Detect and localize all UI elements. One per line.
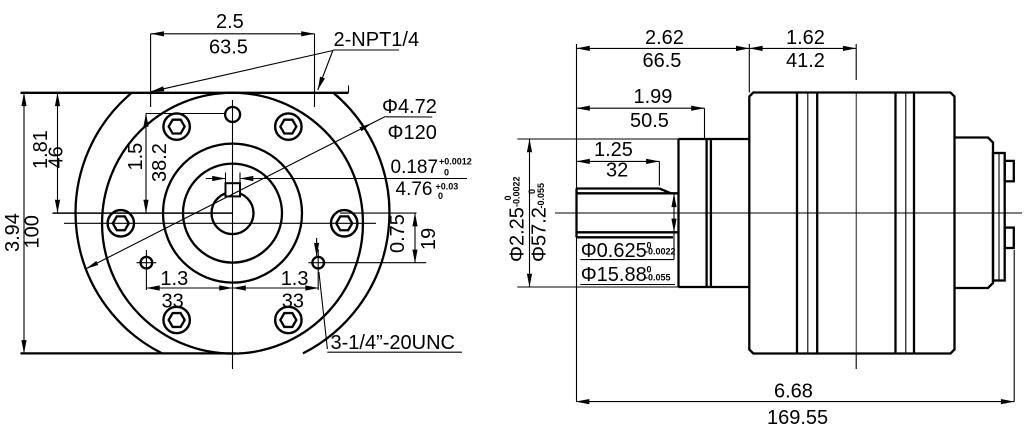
svg-text:1.99: 1.99 xyxy=(634,86,673,108)
svg-text:46: 46 xyxy=(46,146,68,168)
svg-text:63.5: 63.5 xyxy=(209,37,248,59)
svg-text:169.55: 169.55 xyxy=(767,407,828,429)
svg-text:-0.0022: -0.0022 xyxy=(645,247,676,257)
svg-text:33: 33 xyxy=(162,291,184,313)
svg-text:100: 100 xyxy=(22,215,44,248)
svg-text:Φ4.72: Φ4.72 xyxy=(382,96,437,118)
svg-text:+0.0012: +0.0012 xyxy=(439,157,472,167)
svg-text:1.3: 1.3 xyxy=(160,268,188,290)
svg-text:2.5: 2.5 xyxy=(216,11,244,33)
svg-text:6.68: 6.68 xyxy=(774,381,813,403)
svg-text:Φ2.25: Φ2.25 xyxy=(507,207,529,262)
svg-text:0.75: 0.75 xyxy=(387,214,409,253)
svg-text:3-1/4”-20UNC: 3-1/4”-20UNC xyxy=(331,332,455,354)
svg-text:4.76: 4.76 xyxy=(396,179,433,200)
svg-text:Φ57.2: Φ57.2 xyxy=(529,207,551,262)
svg-text:1.62: 1.62 xyxy=(786,27,825,49)
svg-text:41.2: 41.2 xyxy=(786,50,825,72)
svg-text:Φ0.625: Φ0.625 xyxy=(581,240,647,262)
svg-text:38.2: 38.2 xyxy=(149,143,171,182)
svg-text:66.5: 66.5 xyxy=(643,50,682,72)
svg-text:-0.0022: -0.0022 xyxy=(512,176,522,207)
svg-text:-0.055: -0.055 xyxy=(645,273,671,283)
svg-text:0: 0 xyxy=(438,191,443,201)
svg-text:-0.055: -0.055 xyxy=(536,183,546,209)
svg-text:Φ120: Φ120 xyxy=(388,122,437,144)
svg-text:33: 33 xyxy=(282,291,304,313)
svg-text:2.62: 2.62 xyxy=(645,27,684,49)
svg-text:0: 0 xyxy=(444,167,449,177)
svg-text:19: 19 xyxy=(418,228,440,250)
svg-text:50.5: 50.5 xyxy=(630,110,669,132)
svg-text:+0.03: +0.03 xyxy=(436,181,459,191)
svg-text:1.5: 1.5 xyxy=(125,143,147,171)
svg-text:32: 32 xyxy=(606,160,628,182)
svg-text:Φ15.88: Φ15.88 xyxy=(581,264,647,286)
svg-text:1.3: 1.3 xyxy=(281,268,309,290)
svg-text:0.187: 0.187 xyxy=(391,157,439,178)
svg-text:1.25: 1.25 xyxy=(594,139,633,161)
svg-text:2-NPT1/4: 2-NPT1/4 xyxy=(334,29,420,51)
